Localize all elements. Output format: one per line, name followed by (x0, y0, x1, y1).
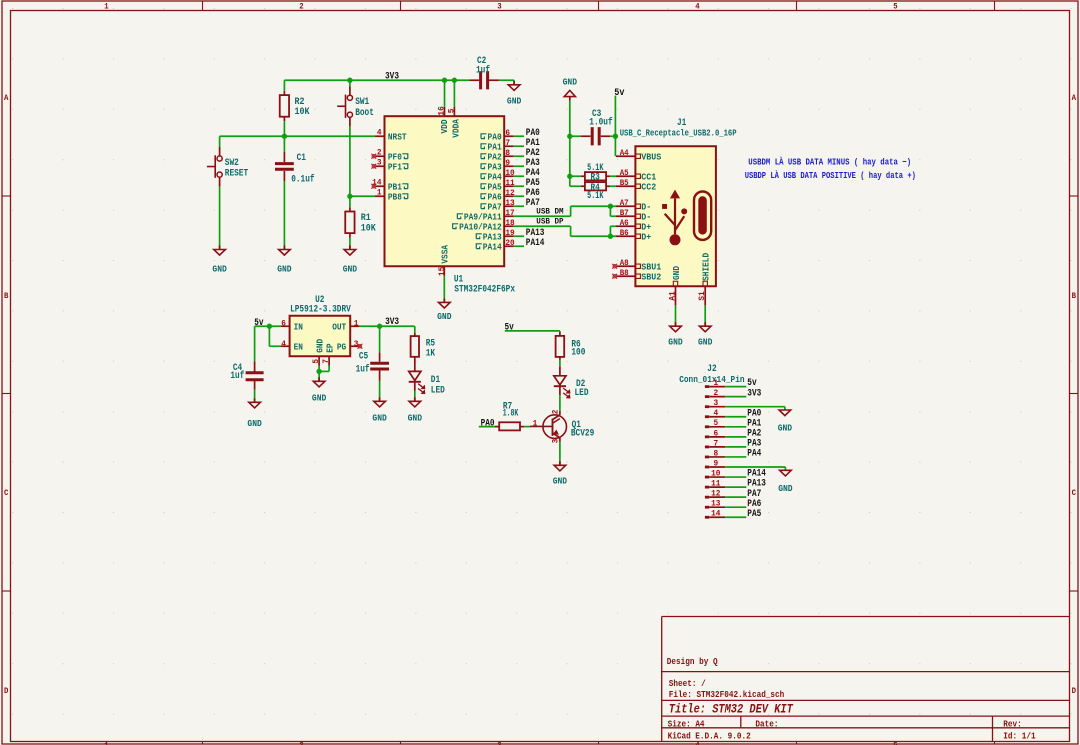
svg-text:PA14: PA14 (526, 238, 545, 249)
svg-text:B5: B5 (620, 178, 629, 188)
junction SW1/3V3 (347, 78, 352, 83)
power net label 5v at R6 (505, 323, 514, 334)
svg-text:GND: GND (408, 412, 423, 423)
net label USB DM (536, 207, 563, 217)
pin 13 of J2 (705, 499, 725, 509)
wire and net label PA5 at J2 pin 14 (725, 509, 761, 520)
svg-text:2: 2 (713, 388, 718, 398)
capacitor C5 (356, 351, 389, 402)
wire net USB_DP (514, 226, 616, 236)
svg-text:GND: GND (277, 264, 292, 275)
junction NRST/R2/C1 (282, 134, 287, 139)
svg-text:9: 9 (505, 158, 510, 168)
svg-text:3: 3 (497, 3, 501, 12)
svg-text:7: 7 (505, 138, 510, 148)
pin A5 CC1 of J1 (616, 168, 657, 183)
svg-text:A8: A8 (620, 258, 629, 268)
LED D2 (554, 366, 589, 411)
svg-text:10: 10 (505, 168, 514, 178)
svg-text:Sheet: /: Sheet: / (669, 678, 706, 689)
svg-text:7: 7 (321, 359, 331, 364)
svg-text:B: B (1072, 292, 1076, 301)
wire and net label 5v at J2 pin 1 (725, 378, 756, 389)
svg-text:D+: D+ (641, 231, 651, 242)
pin 19 PA13 of U1 (476, 228, 514, 242)
pin 14 of J2 (705, 509, 725, 519)
wire net 3V3 from OUT (360, 326, 415, 333)
junction VDD (442, 78, 447, 83)
svg-text:GND: GND (343, 264, 358, 275)
no-connect X on SBU2 (612, 274, 617, 279)
svg-text:0.1uf: 0.1uf (291, 173, 314, 184)
svg-text:SHIELD: SHIELD (701, 253, 712, 281)
svg-text:12: 12 (505, 188, 514, 198)
LED D1 (409, 364, 445, 401)
pin 10 PA4 of U1 (481, 168, 515, 182)
pin 7 EP of U2 (319, 343, 335, 371)
wire and net label PA3 (514, 158, 540, 169)
svg-text:A: A (4, 94, 8, 103)
svg-text:VDD: VDD (439, 119, 450, 133)
svg-text:8: 8 (505, 148, 510, 158)
svg-text:1.8K: 1.8K (503, 407, 519, 418)
junction USB_DM at A7 (608, 204, 613, 209)
capacitor C2 (470, 55, 499, 89)
svg-text:Size: A4: Size: A4 (668, 718, 705, 729)
svg-text:J2: J2 (707, 363, 716, 374)
resistor R3 (570, 162, 616, 182)
svg-text:2: 2 (550, 410, 560, 415)
pin A8 SBU1 of J1 (616, 258, 662, 273)
pin 9 PA3 of U1 (481, 158, 514, 172)
svg-text:SBU2: SBU2 (641, 271, 661, 282)
junction 5v/EN (267, 324, 272, 329)
svg-text:D: D (1072, 687, 1076, 696)
svg-text:13: 13 (711, 499, 720, 509)
svg-text:5.1K: 5.1K (587, 190, 603, 201)
pin A7 D- of J1 (616, 198, 651, 213)
pin 4 EN of U2 (281, 339, 303, 353)
svg-text:OUT: OUT (332, 321, 346, 332)
svg-text:20: 20 (505, 238, 514, 248)
svg-text:IN: IN (294, 321, 303, 332)
svg-text:3: 3 (497, 742, 501, 745)
svg-text:GND: GND (507, 96, 522, 107)
wire R7 to Q1 base (524, 426, 530, 428)
svg-text:15: 15 (437, 267, 447, 276)
pin 6 of J2 (705, 428, 725, 438)
resistor R2 (280, 80, 310, 136)
wire and net label PA0 (514, 128, 540, 139)
wire U2 GND down (318, 366, 320, 382)
ground under C2 (507, 81, 522, 107)
resistor R1 (345, 196, 376, 249)
svg-text:A1: A1 (668, 291, 678, 300)
svg-text:VDDA: VDDA (450, 119, 461, 138)
svg-text:10K: 10K (295, 106, 310, 117)
svg-text:Boot: Boot (355, 107, 374, 118)
svg-text:PA5: PA5 (747, 509, 761, 520)
svg-text:11: 11 (711, 479, 720, 489)
svg-text:EN: EN (294, 341, 303, 352)
svg-text:A7: A7 (620, 198, 629, 208)
svg-text:5v: 5v (505, 323, 514, 334)
svg-text:J1: J1 (677, 117, 686, 128)
svg-text:5v: 5v (254, 318, 263, 329)
svg-text:GND: GND (778, 423, 793, 434)
svg-text:VSSA: VSSA (440, 245, 451, 264)
text note USBDM blue (748, 156, 911, 167)
IC U2 LP5912-3.3DRV body (290, 294, 351, 356)
svg-text:1uf: 1uf (476, 64, 490, 75)
wire and net label PA1 at J2 pin 5 (725, 418, 761, 429)
net label USB DP (536, 217, 563, 227)
svg-text:GND: GND (671, 266, 682, 280)
pin 1 PB8 of U1 (350, 188, 408, 203)
pin 12 of J2 (705, 489, 725, 499)
wire net USB_DM (514, 206, 616, 216)
svg-text:R1: R1 (361, 212, 371, 223)
svg-text:B7: B7 (620, 208, 629, 218)
capacitor C3 (570, 108, 616, 145)
pin B5 CC2 of J1 (616, 178, 657, 193)
pin A4 VBUS of J1 (616, 148, 662, 163)
svg-text:1: 1 (713, 378, 718, 388)
svg-text:7: 7 (713, 438, 718, 448)
ground under J1 GND (668, 322, 683, 347)
pin B6 D+ of J1 (616, 228, 652, 243)
svg-text:1: 1 (104, 742, 108, 745)
svg-text:1: 1 (533, 418, 538, 428)
svg-text:USB DP: USB DP (536, 217, 563, 227)
svg-text:3V3: 3V3 (747, 388, 761, 399)
svg-text:GND: GND (553, 475, 568, 486)
pin 12 PA6 of U1 (481, 188, 515, 202)
pin B7 D- of J1 (616, 208, 651, 223)
svg-text:5: 5 (893, 3, 897, 12)
svg-text:1: 1 (354, 318, 359, 328)
junction GND/R3 (567, 174, 572, 179)
svg-text:EP: EP (325, 343, 336, 353)
pin 6 PA0 of U1 (481, 128, 514, 142)
wire Q1 emitter to GND (559, 442, 561, 465)
wire and net label PA13 (514, 228, 545, 239)
pin 16 VDD of U1 (437, 80, 451, 133)
capacitor C4 (230, 361, 263, 402)
wire and net label PA6 at J2 pin 13 (725, 499, 761, 510)
svg-text:3: 3 (713, 398, 718, 408)
wire and net label PA4 at J2 pin 8 (725, 449, 761, 460)
svg-text:1: 1 (104, 3, 108, 12)
pin 6 IN of U2 (281, 318, 303, 332)
pin A6 D+ of J1 (616, 218, 652, 233)
capacitor C1 (275, 136, 315, 249)
wire GND vertical to CC pulldowns (569, 101, 571, 186)
wire and net label PA7 (514, 198, 540, 209)
power net label 5v at U2 (254, 318, 263, 329)
pin 7 PA1 of U1 (481, 138, 514, 152)
resistor R6 (556, 332, 586, 366)
ground under R1 (343, 246, 358, 275)
wire and net label PA4 (514, 168, 540, 179)
svg-text:S1: S1 (697, 291, 707, 300)
wire and net label PA5 (514, 178, 540, 189)
svg-text:5: 5 (893, 742, 897, 745)
svg-text:19: 19 (505, 228, 514, 238)
svg-text:10K: 10K (361, 223, 376, 234)
svg-text:USBDP LÀ USB DATA POSITIVE ( h: USBDP LÀ USB DATA POSITIVE ( hay data +) (745, 170, 916, 181)
junction USB_DP at B6 (608, 234, 613, 239)
svg-text:A4: A4 (620, 148, 629, 158)
svg-text:PA4: PA4 (747, 449, 761, 460)
svg-text:1uf: 1uf (356, 363, 370, 374)
svg-text:SW1: SW1 (355, 96, 369, 107)
svg-text:LP5912-3.3DRV: LP5912-3.3DRV (290, 303, 351, 314)
svg-text:4: 4 (695, 3, 699, 12)
svg-text:4: 4 (281, 339, 286, 349)
wire and net label PA0 at J2 pin 4 (725, 408, 761, 419)
ground at J2 pin3 (778, 410, 793, 434)
svg-text:PA14: PA14 (483, 241, 502, 252)
pin 20 PA14 of U1 (476, 238, 514, 252)
pin 17 PA9/PA11 of U1 (457, 208, 514, 222)
svg-text:11: 11 (505, 178, 514, 188)
pin 18 PA10/PA12 of U1 (453, 218, 515, 232)
wire C5 branch (379, 326, 381, 352)
resistor R5 (411, 333, 435, 364)
switch SW1 Boot (337, 80, 374, 196)
pin 5 VDDA of U1 (446, 80, 461, 137)
switch SW2 RESET (207, 147, 248, 248)
svg-text:9: 9 (713, 458, 718, 468)
svg-text:C: C (4, 489, 8, 498)
wire 5v to R6 (505, 331, 560, 332)
pin 9 of J2 (705, 458, 725, 468)
junction GND/C3 (567, 134, 572, 139)
pin 3 of J2 (705, 398, 725, 408)
power GND above C3 (563, 77, 578, 101)
title block (662, 617, 1070, 742)
svg-text:File: STM32F042.kicad_sch: File: STM32F042.kicad_sch (669, 689, 785, 700)
svg-text:2: 2 (377, 148, 382, 158)
svg-text:GND: GND (312, 392, 327, 403)
wire and net label PA14 (514, 238, 545, 249)
pin 1 OUT of U2 (332, 318, 360, 332)
wire and net label PA2 at J2 pin 6 (725, 428, 761, 439)
pin 14 PB1 of U1 (371, 178, 407, 193)
pin 2 of J2 (705, 388, 725, 398)
svg-text:R2: R2 (295, 96, 305, 107)
ground under Q1 (553, 461, 568, 486)
ground under VSSA (437, 298, 452, 322)
wire and net label 3V3 at J2 pin 2 (725, 388, 761, 399)
ground under C1 (277, 246, 292, 275)
pin 7 of J2 (705, 438, 725, 448)
svg-text:B6: B6 (620, 228, 629, 238)
junction OUT/C5 (377, 324, 382, 329)
svg-text:1uf: 1uf (230, 370, 244, 381)
svg-text:6: 6 (281, 318, 286, 328)
junction GND/EP of U2 (316, 369, 321, 374)
wire and net label PA13 at J2 pin 11 (725, 479, 766, 490)
IC U1 STM32F042F6Px body (385, 116, 516, 295)
svg-text:C1: C1 (297, 152, 306, 163)
USB trident icon inside J1 (662, 190, 687, 246)
svg-text:Date:: Date: (755, 718, 778, 729)
pin 4 NRST of U1 (375, 128, 407, 143)
svg-text:GND: GND (437, 311, 452, 322)
ground under C4 (247, 398, 262, 429)
net label 3V3 at U2 (385, 317, 399, 328)
pin 10 of J2 (705, 468, 725, 478)
svg-text:13: 13 (505, 198, 514, 208)
svg-text:6: 6 (505, 128, 510, 138)
svg-text:PB8: PB8 (388, 191, 402, 202)
wire 5v to VBUS (614, 96, 616, 157)
svg-text:Rev:: Rev: (1003, 718, 1021, 729)
pin 11 of J2 (705, 479, 725, 489)
wire 5v down to C4 (254, 326, 256, 361)
svg-text:RESET: RESET (225, 168, 248, 179)
ground at J2 pin9 (778, 470, 793, 494)
svg-text:18: 18 (505, 218, 514, 228)
svg-text:Title: STM32 DEV KIT: Title: STM32 DEV KIT (669, 703, 794, 717)
pin 15 VSSA of U1 (437, 245, 451, 303)
svg-text:CC2: CC2 (641, 181, 656, 192)
ground under SW2 (212, 246, 227, 275)
text note USBDP blue (745, 170, 916, 181)
wire and net label PA7 at J2 pin 12 (725, 489, 761, 500)
pin 2 PF0 of U1 (371, 148, 407, 163)
junction 5v/C3 (613, 134, 618, 139)
svg-text:14: 14 (372, 178, 381, 188)
svg-text:4: 4 (377, 128, 382, 138)
svg-text:A: A (1072, 94, 1076, 103)
connector J1 USB_C_Receptacle body (620, 117, 737, 286)
svg-text:1.0uf: 1.0uf (589, 117, 612, 128)
junction VDDA (452, 78, 457, 83)
wire and net label PA6 (514, 188, 540, 199)
svg-text:GND: GND (212, 264, 227, 275)
svg-text:GND: GND (778, 483, 793, 494)
net label 3V3 (385, 71, 399, 82)
pin 3 PF1 of U1 (371, 158, 407, 173)
svg-text:PA0: PA0 (481, 419, 495, 430)
pin B8 SBU2 of J1 (616, 268, 662, 283)
resistor R7 (495, 400, 524, 430)
svg-text:D: D (4, 687, 8, 696)
wire 5v to U2 IN (255, 325, 281, 327)
power net label 5v at J1 (614, 88, 624, 99)
svg-text:2: 2 (299, 3, 303, 12)
svg-text:3V3: 3V3 (385, 317, 399, 328)
svg-text:10: 10 (711, 468, 720, 478)
svg-text:C5: C5 (359, 351, 368, 362)
svg-text:C: C (1072, 489, 1076, 498)
svg-text:USB_C_Receptacle_USB2.0_16P: USB_C_Receptacle_USB2.0_16P (620, 128, 737, 139)
pin S1 SHIELD of J1 (697, 253, 711, 327)
ground under U2 (312, 377, 327, 403)
no-connect X on SBU1 (612, 264, 617, 269)
svg-text:3: 3 (550, 439, 560, 444)
svg-text:GND: GND (372, 412, 387, 423)
svg-text:B8: B8 (620, 268, 629, 278)
transistor Q1 BCV29 (530, 410, 594, 444)
pin 8 PA2 of U1 (481, 148, 514, 162)
wire and net label PA14 at J2 pin 10 (725, 469, 766, 480)
svg-text:STM32F042F6Px: STM32F042F6Px (454, 284, 515, 295)
svg-text:17: 17 (505, 208, 514, 218)
svg-text:1: 1 (377, 188, 382, 198)
wire and net label PA3 at J2 pin 7 (725, 439, 761, 450)
svg-text:5: 5 (311, 359, 321, 364)
wire and net label PA2 (514, 148, 540, 159)
svg-text:B: B (4, 292, 8, 301)
svg-text:GND: GND (247, 418, 262, 429)
svg-text:14: 14 (711, 509, 720, 519)
pin A1 GND of J1 (668, 266, 682, 327)
power net 3V3 rail wire (284, 80, 514, 84)
svg-text:1K: 1K (426, 347, 435, 358)
svg-text:Conn_01x14_Pin: Conn_01x14_Pin (679, 374, 745, 385)
pin 13 PA7 of U1 (481, 198, 515, 212)
pin 5 GND of U2 (311, 338, 325, 365)
svg-text:KiCad E.D.A. 9.0.2: KiCad E.D.A. 9.0.2 (668, 730, 751, 741)
svg-text:GND: GND (698, 336, 713, 347)
svg-text:USB DM: USB DM (536, 207, 563, 217)
svg-text:8: 8 (713, 448, 718, 458)
wire J2 pin9 to GND (725, 467, 785, 470)
pin 5 of J2 (705, 418, 725, 428)
svg-text:5: 5 (713, 418, 718, 428)
svg-text:GND: GND (668, 336, 683, 347)
wire PA0 to R7 (479, 426, 495, 428)
svg-text:BCV29: BCV29 (571, 427, 594, 438)
svg-text:PG: PG (337, 341, 347, 352)
pin 4 of J2 (705, 408, 725, 418)
svg-text:4: 4 (695, 742, 699, 745)
ground under C5 (372, 397, 387, 423)
svg-text:3V3: 3V3 (385, 71, 399, 82)
svg-text:16: 16 (437, 106, 447, 115)
pin 8 of J2 (705, 448, 725, 458)
svg-text:PF1: PF1 (388, 161, 402, 172)
svg-text:6: 6 (713, 428, 718, 438)
junction PB8/SW1/R1 (347, 194, 352, 199)
svg-text:NRST: NRST (388, 131, 407, 142)
svg-text:4: 4 (713, 408, 718, 418)
svg-text:SW2: SW2 (225, 157, 239, 168)
svg-text:LED: LED (431, 384, 445, 395)
svg-text:GND: GND (563, 77, 578, 88)
svg-text:Design by Q: Design by Q (667, 656, 718, 667)
net label PA0 at R7 (481, 419, 495, 430)
svg-text:100: 100 (571, 347, 585, 358)
pin 3 PG of U2 (337, 339, 362, 353)
svg-text:12: 12 (711, 489, 720, 499)
svg-text:U1: U1 (454, 273, 463, 284)
ground under J1 SHIELD (698, 322, 713, 347)
wire J2 pin3 to GND (725, 407, 785, 410)
pin 1 of J2 (705, 378, 725, 388)
svg-text:A6: A6 (620, 218, 629, 228)
USB-C receptacle capsule icon inside J1 (694, 192, 711, 240)
svg-text:LED: LED (575, 387, 589, 398)
svg-text:Id: 1/1: Id: 1/1 (1003, 730, 1036, 741)
svg-text:A5: A5 (620, 168, 629, 178)
wire EN loop (269, 326, 281, 346)
connector J2 Conn_01x14_Pin labels (679, 363, 745, 385)
